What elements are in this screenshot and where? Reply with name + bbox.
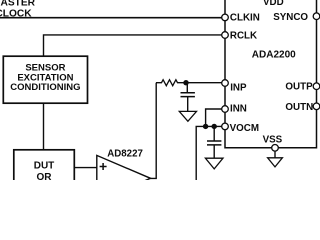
junction dot INN/VOCM xyxy=(203,124,208,129)
wire resistor to INP xyxy=(186,82,225,84)
wire capacitor C1 to ground xyxy=(187,97,189,112)
wire VSS to ground xyxy=(274,151,276,158)
svg-text:OR: OR xyxy=(37,172,53,180)
resistor R1 xyxy=(156,80,186,86)
wire DUT box to amplifier input xyxy=(74,167,97,169)
wire capacitor C2 to ground xyxy=(213,145,215,158)
svg-text:AD8227: AD8227 xyxy=(107,148,143,159)
pin INN xyxy=(222,104,247,115)
pin VSS xyxy=(263,135,283,151)
wire RCLK to sensor excitation box xyxy=(44,35,226,56)
junction node at INP filter xyxy=(183,80,188,85)
pin RCLK xyxy=(222,31,257,42)
svg-text:OUTN: OUTN xyxy=(285,102,313,113)
svg-text:CLKIN: CLKIN xyxy=(230,13,260,24)
wire MASTER CLOCK to CLKIN xyxy=(0,17,225,19)
ground below VSS xyxy=(268,158,283,167)
wire sensor box to DUT box xyxy=(43,103,45,150)
svg-text:RCLK: RCLK xyxy=(230,31,257,42)
svg-text:VSS: VSS xyxy=(263,135,283,146)
wire amplifier output to resistor xyxy=(150,83,157,179)
text sensor excitation conditioning xyxy=(10,63,80,94)
pin INP xyxy=(222,80,247,94)
capacitor C2 xyxy=(207,141,221,145)
label MASTER CLOCK xyxy=(0,0,36,19)
ground below C2 xyxy=(205,158,223,169)
capacitor C1 xyxy=(181,93,195,97)
op-amp U2 AD8227 xyxy=(97,155,151,201)
svg-text:MASTER: MASTER xyxy=(0,0,36,8)
junction dot C2/VOCM xyxy=(212,124,217,129)
pin CLKIN xyxy=(222,13,260,24)
svg-text:OUTP: OUTP xyxy=(285,82,313,93)
box DUT OR xyxy=(14,150,75,190)
pin OUTP xyxy=(285,82,319,93)
pin VOCM xyxy=(222,123,259,134)
wire junction to capacitor C2 xyxy=(213,126,215,141)
box sensor excitation conditioning xyxy=(3,56,87,103)
svg-text:VOCM: VOCM xyxy=(230,123,259,134)
wire INN to VOCM net xyxy=(206,109,225,126)
pin SYNCO xyxy=(273,12,320,23)
IC U1 ADA2200 box xyxy=(225,0,317,148)
wire VOCM net xyxy=(196,126,225,180)
svg-text:INP: INP xyxy=(230,82,247,93)
svg-text:DUT: DUT xyxy=(34,160,55,171)
svg-text:ADA2200: ADA2200 xyxy=(252,50,296,61)
svg-text:INN: INN xyxy=(230,104,247,115)
svg-text:SYNCO: SYNCO xyxy=(273,12,308,23)
text DUT OR xyxy=(34,160,55,183)
pin OUTN xyxy=(285,102,319,113)
wire junction to capacitor C1 xyxy=(186,83,188,93)
svg-text:VDD: VDD xyxy=(263,0,284,8)
ground below C1 xyxy=(179,111,196,121)
svg-text:CONDITIONING: CONDITIONING xyxy=(10,82,80,93)
